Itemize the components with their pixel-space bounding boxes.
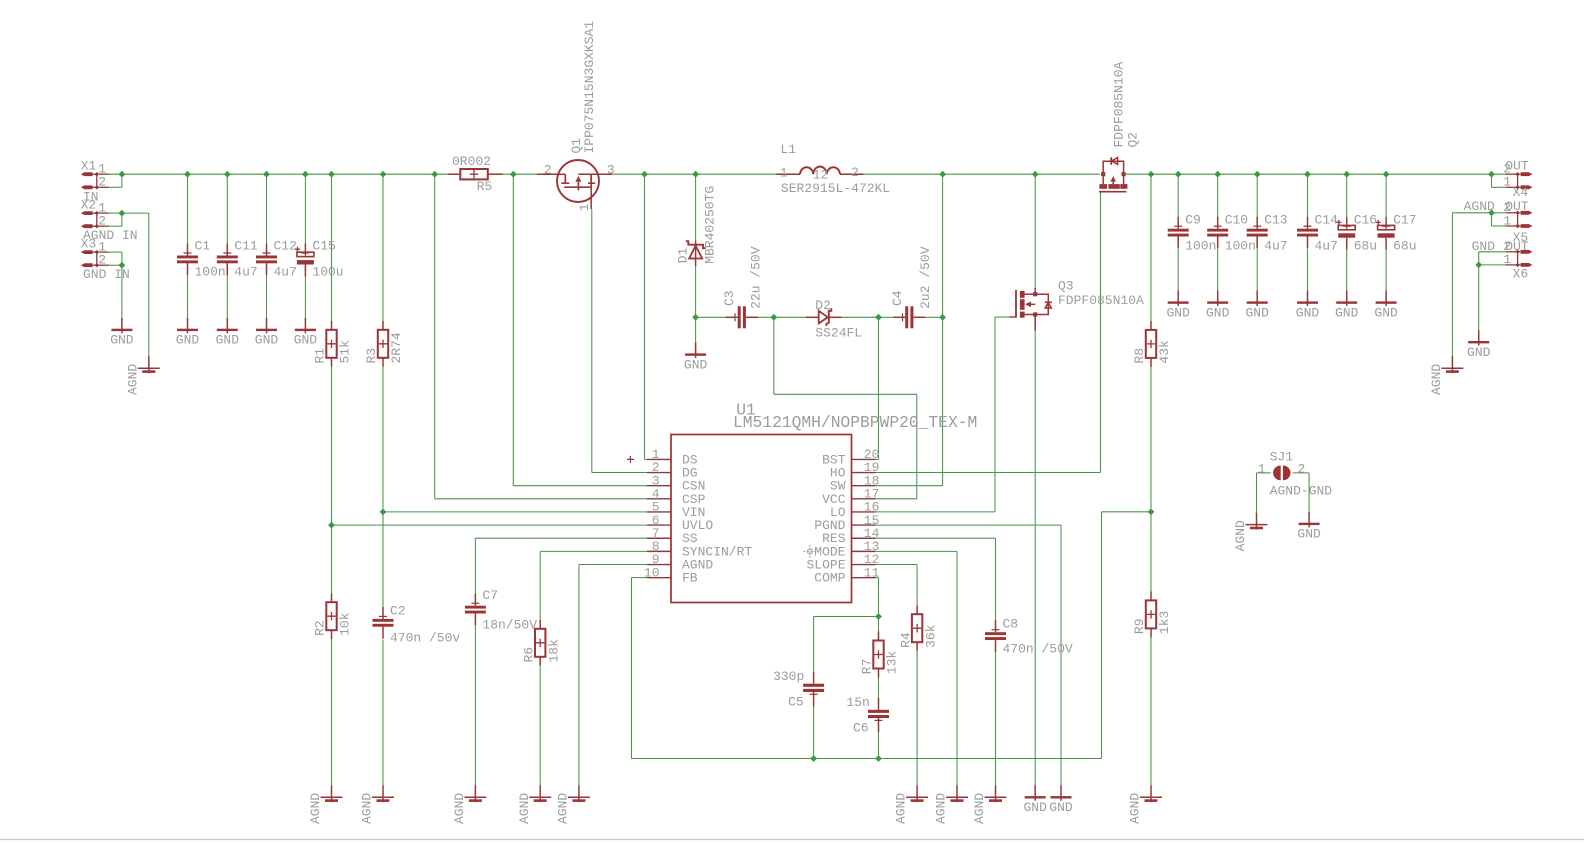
svg-text:2: 2: [98, 175, 106, 190]
wire Q3 gate stub: [995, 316, 1009, 318]
svg-text:R9: R9: [1132, 618, 1147, 634]
junction COMP node: [875, 613, 882, 620]
svg-text:SS24FL: SS24FL: [815, 326, 862, 341]
svg-text:4u7: 4u7: [234, 265, 257, 280]
svg-text:C13: C13: [1264, 213, 1287, 228]
svg-text:GND: GND: [1297, 527, 1321, 542]
U1 pin 19 HO: [830, 460, 880, 480]
ground GND under X3: [110, 318, 134, 348]
wire RES to C8: [995, 538, 997, 620]
wire C5 bottom: [813, 706, 815, 758]
inductor L1: [776, 165, 864, 183]
wire rail to C15: [304, 174, 306, 243]
svg-text:SER2915L-472KL: SER2915L-472KL: [781, 181, 890, 196]
capacitor C5: [773, 669, 824, 709]
capacitor C11: [217, 239, 258, 280]
wire rail to C16: [1346, 174, 1348, 217]
svg-text:10k: 10k: [338, 612, 353, 636]
svg-text:MBR40250TG: MBR40250TG: [703, 186, 718, 264]
wire UVLO to R2: [331, 525, 333, 593]
wire VIN: [383, 511, 647, 513]
connector X4: [1503, 162, 1532, 201]
junction rail C15: [302, 171, 309, 178]
wire SJ1 to GND: [1308, 473, 1310, 512]
wire CSP drop: [434, 174, 436, 499]
junction rail DS: [641, 171, 648, 178]
wire SLOPE to R4: [916, 565, 918, 606]
U1 pin 12 SLOPE: [806, 552, 879, 572]
svg-text:22u /50V: 22u /50V: [748, 246, 763, 309]
svg-text:Q3: Q3: [1058, 279, 1074, 294]
wire R2 to AGND: [331, 639, 333, 785]
wire X5 pin1: [1492, 225, 1506, 227]
svg-text:GND: GND: [110, 333, 134, 348]
wire FB pin: [632, 577, 648, 579]
svg-text:100n: 100n: [1225, 239, 1256, 254]
svg-text:1: 1: [1503, 252, 1511, 267]
svg-text:GND: GND: [255, 333, 279, 348]
svg-text:AGND: AGND: [517, 793, 532, 824]
svg-text:OUT: OUT: [1505, 199, 1529, 214]
svg-text:R3: R3: [364, 348, 379, 364]
svg-text:2: 2: [1298, 461, 1306, 476]
junction rail R3: [380, 171, 387, 178]
svg-text:AGND: AGND: [934, 793, 949, 824]
wire BST riser: [878, 317, 880, 459]
junction rail C17: [1383, 171, 1390, 178]
wire FB drop: [631, 578, 633, 759]
wire rail to C10: [1217, 174, 1219, 217]
svg-text:C4: C4: [890, 290, 905, 306]
svg-text:100u: 100u: [312, 265, 343, 280]
svg-text:R4: R4: [898, 632, 913, 648]
junction D2 C4 BST node: [875, 314, 882, 321]
svg-text:1: 1: [1503, 213, 1511, 228]
wire RES: [876, 537, 996, 539]
ground AGND under X2: [125, 356, 159, 395]
svg-text:C8: C8: [1003, 616, 1019, 631]
capacitor C7: [465, 588, 537, 632]
wire MODE: [876, 550, 958, 552]
capacitor C4: [893, 306, 925, 328]
capacitor C13: [1247, 213, 1288, 254]
svg-text:AGND: AGND: [1464, 199, 1495, 214]
junction rail R1: [328, 171, 335, 178]
junction C3 D2 VCC node: [770, 314, 777, 321]
wire C10 to GND: [1217, 249, 1219, 290]
wire D2 cathode to BST node: [842, 316, 879, 318]
U1 MODE origin crosshair: [803, 545, 816, 558]
U1 origin cross: [627, 456, 634, 463]
svg-text:1k3: 1k3: [1157, 611, 1172, 634]
U1 pin 10 FB: [644, 565, 698, 585]
svg-text:AGND: AGND: [360, 793, 375, 824]
wire X2 pin1: [109, 212, 122, 214]
wire FB to divider: [1102, 511, 1152, 513]
ground GND under C12: [255, 318, 279, 348]
svg-text:X6: X6: [1513, 267, 1529, 282]
wire C5 top: [813, 617, 815, 672]
junction rail C14: [1304, 171, 1311, 178]
svg-text:AGND: AGND: [556, 793, 571, 824]
wire HO to Q2 gate: [1100, 192, 1102, 472]
svg-text:36k: 36k: [923, 624, 938, 648]
capacitor C8: [985, 616, 1073, 656]
wire C11 to GND: [226, 275, 228, 318]
svg-text:3: 3: [607, 162, 615, 177]
wire VCC riser: [916, 394, 918, 499]
capacitor C3: [726, 306, 758, 328]
svg-text:C16: C16: [1354, 213, 1377, 228]
wire AGND pin drop: [578, 565, 580, 786]
wire C4 to SW riser: [926, 316, 943, 318]
wire VCC to D2 anode node: [773, 317, 775, 394]
wire C9 to GND: [1177, 249, 1179, 290]
ground GND under C16: [1335, 291, 1359, 321]
ground AGND under SJ1: [1233, 513, 1267, 552]
svg-text:GND: GND: [1374, 305, 1398, 320]
wire X3 pin1: [109, 251, 122, 253]
svg-text:GND IN: GND IN: [83, 267, 130, 282]
capacitor C15: [295, 239, 344, 280]
svg-text:GND: GND: [1296, 305, 1320, 320]
svg-text:C5: C5: [788, 694, 804, 709]
wire X6 jog: [1478, 252, 1480, 265]
svg-text:X1: X1: [81, 159, 97, 174]
svg-text:43k: 43k: [1157, 340, 1172, 364]
ground GND under C13: [1245, 291, 1269, 321]
wire AGND_IN: [122, 212, 149, 214]
svg-text:C14: C14: [1315, 213, 1339, 228]
svg-text:100n: 100n: [1185, 239, 1216, 254]
svg-text:1: 1: [1258, 461, 1266, 476]
wire CSN drop: [512, 174, 514, 486]
svg-text:AGND-GND: AGND-GND: [1270, 484, 1333, 499]
junction rail R8: [1148, 171, 1155, 178]
ground GND under Q3: [1023, 785, 1047, 815]
U1 pin 18 SW: [830, 473, 880, 493]
svg-text:GND: GND: [176, 333, 200, 348]
wire C13 to GND: [1256, 249, 1258, 290]
svg-text:2: 2: [851, 165, 859, 180]
U1 pin 4 CSP: [647, 487, 706, 507]
resistor R4: [898, 605, 938, 651]
transistor Q3: [1009, 288, 1052, 331]
ground AGND under R4: [894, 785, 928, 824]
svg-text:1: 1: [577, 203, 592, 211]
wire PGND to GND: [1060, 525, 1062, 785]
junction X5 AGND node: [1488, 209, 1495, 216]
U1 pin 9 AGND: [647, 552, 713, 572]
svg-text:AGND: AGND: [308, 793, 323, 824]
wire LO: [876, 511, 996, 513]
wire R1 to UVLO: [331, 367, 333, 525]
frame line: [0, 839, 1584, 841]
svg-text:GND: GND: [1023, 800, 1047, 815]
svg-text:GND: GND: [684, 357, 708, 372]
svg-text:X2: X2: [81, 197, 97, 212]
svg-text:2R74: 2R74: [389, 332, 404, 363]
ground AGND under C7: [452, 785, 486, 824]
capacitor C9: [1168, 213, 1217, 254]
svg-text:2: 2: [98, 253, 106, 268]
ground AGND under MODE: [934, 785, 968, 824]
wire VIN to C2: [382, 512, 384, 607]
wire X2 riser: [121, 213, 123, 226]
ground AGND under C8: [972, 785, 1006, 824]
U1 pin 14 RES: [822, 526, 880, 546]
resistor R2: [313, 593, 353, 639]
wire GND_IN drop: [121, 265, 123, 318]
junction X1 on VIN rail: [119, 171, 126, 178]
ground AGND under R2: [308, 785, 342, 824]
transistor Q2: [1099, 157, 1127, 192]
svg-text:1: 1: [780, 166, 788, 181]
svg-text:R8: R8: [1132, 348, 1147, 364]
svg-text:R6: R6: [521, 647, 536, 663]
svg-text:GND: GND: [1335, 305, 1359, 320]
svg-text:R2: R2: [313, 620, 328, 636]
wire C7 to AGND: [474, 626, 476, 785]
junction R8 R9 FB divider: [1148, 508, 1155, 515]
wire D1 to VCC node: [695, 266, 697, 317]
wire Q1 source to DG: [591, 209, 593, 473]
resistor R3: [364, 321, 404, 367]
wire COMP to C5: [814, 616, 879, 618]
capacitor C10: [1207, 213, 1256, 254]
wire to C4: [879, 316, 894, 318]
wire CSN: [513, 485, 647, 487]
svg-text:C2: C2: [390, 604, 406, 619]
svg-text:C9: C9: [1185, 213, 1201, 228]
junction rail D1: [692, 171, 699, 178]
wire SW rail L1 to Q2: [864, 173, 1100, 175]
wire X5 jog: [1491, 213, 1493, 226]
U1 pin 20 BST: [822, 447, 879, 467]
svg-text:IPP075N15N3GXKSA1: IPP075N15N3GXKSA1: [582, 21, 597, 154]
svg-text:C11: C11: [234, 239, 258, 254]
svg-text:C10: C10: [1225, 213, 1248, 228]
wire DS drop: [644, 174, 646, 459]
wire AGND drop right: [1451, 213, 1453, 356]
wire X4 pin1: [1492, 186, 1506, 188]
junction rail C9: [1175, 171, 1182, 178]
wire C8 to AGND: [995, 652, 997, 785]
wire SYNCIN_RT: [540, 550, 647, 552]
U1 pin 8 SYNCIN/RT: [647, 539, 752, 559]
wire COMP pin: [876, 577, 879, 579]
ground GND under X6: [1467, 330, 1491, 360]
svg-text:COMP: COMP: [814, 571, 845, 586]
junction rail C16: [1343, 171, 1350, 178]
wire PGND: [876, 524, 1062, 526]
junction C6 FB rail: [875, 755, 882, 762]
svg-text:4u7: 4u7: [274, 265, 297, 280]
U1 pin 11 COMP: [814, 565, 879, 585]
U1 pin 17 VCC: [822, 487, 879, 507]
U1 pin 6 UVLO: [647, 513, 713, 533]
wire rail to D1: [695, 174, 697, 240]
U1 pin 2 DG: [647, 460, 698, 480]
wire C12 to GND: [266, 275, 268, 318]
capacitor C14: [1297, 213, 1338, 254]
wire BST pin: [876, 458, 879, 460]
resistor R1: [313, 321, 353, 367]
wire VCC horizontal: [774, 393, 917, 395]
svg-text:L1: L1: [780, 142, 796, 157]
junction rail Q3 drain: [1032, 171, 1039, 178]
wire OUT rail Q2 to X4: [1126, 173, 1508, 175]
svg-text:AGND: AGND: [452, 793, 467, 824]
svg-text:R1: R1: [313, 348, 328, 364]
ground GND under D1: [684, 343, 708, 373]
svg-text:4u7: 4u7: [1315, 239, 1338, 254]
svg-text:D1: D1: [676, 247, 691, 263]
wire DS: [645, 458, 648, 460]
wire AGND_IN drop: [148, 213, 150, 356]
wire COMP drop: [878, 578, 880, 617]
junction rail C12: [263, 171, 270, 178]
ground AGND under C2: [360, 785, 394, 824]
wire C16 to GND: [1346, 249, 1348, 290]
wire rail to R8: [1150, 174, 1152, 321]
svg-text:C3: C3: [722, 290, 737, 306]
ground GND under C17: [1374, 291, 1398, 321]
wire rail to C12: [266, 174, 268, 243]
svg-text:100n: 100n: [195, 265, 226, 280]
wire MODE to AGND: [956, 551, 958, 785]
wire rail to C13: [1256, 174, 1258, 217]
svg-text:C1: C1: [195, 239, 211, 254]
junction rail CSN: [510, 171, 517, 178]
wire R7 to C6: [878, 678, 880, 698]
svg-text:68u: 68u: [1354, 239, 1377, 254]
capacitor C1: [177, 239, 226, 280]
wire UVLO: [332, 524, 648, 526]
connector X3: [81, 236, 109, 267]
svg-text:GND: GND: [1166, 305, 1190, 320]
svg-text:0R002: 0R002: [452, 154, 491, 169]
ground GND under C10: [1206, 291, 1230, 321]
ground GND under C14: [1296, 291, 1320, 321]
svg-text:C12: C12: [274, 239, 297, 254]
junction C3 GND node: [692, 314, 699, 321]
svg-text:51k: 51k: [338, 340, 353, 364]
svg-text:FDPF085N10A: FDPF085N10A: [1058, 293, 1144, 308]
junction X6 GND node: [1475, 262, 1482, 269]
wire rail to Q3 drain: [1034, 174, 1036, 288]
svg-text:C7: C7: [482, 588, 498, 603]
wire LO to Q3 gate riser: [994, 317, 996, 512]
U1 pin 1 DS: [647, 447, 698, 467]
wire FB riser: [1101, 512, 1103, 759]
resistor R8: [1132, 321, 1172, 367]
wire DG: [592, 472, 647, 474]
svg-text:68u: 68u: [1393, 239, 1416, 254]
svg-text:GND: GND: [1472, 239, 1496, 254]
ground GND under C11: [216, 318, 240, 348]
wire X2 pin2: [109, 225, 122, 227]
junction rail X4: [1488, 171, 1495, 178]
wire R3 to VIN pin: [382, 367, 384, 512]
wire COMP to R7: [878, 617, 880, 632]
wire rail to C14: [1307, 174, 1309, 217]
svg-text:AGND: AGND: [125, 364, 140, 395]
wire SW riser upper: [942, 174, 944, 317]
capacitor C16: [1336, 213, 1377, 254]
wire to GND symbol: [695, 317, 697, 342]
svg-text:FB: FB: [682, 571, 698, 586]
svg-text:R7: R7: [860, 659, 875, 675]
resistor R7: [860, 632, 900, 678]
ground GND under C9: [1166, 291, 1190, 321]
capacitor C12: [256, 239, 297, 280]
wire X4 jog: [1491, 174, 1493, 187]
svg-text:R5: R5: [477, 179, 493, 194]
wire X1 pin2: [109, 186, 122, 188]
connector X6: [1503, 239, 1532, 281]
U1 pin 5 VIN: [647, 500, 705, 520]
svg-text:470n /50v: 470n /50v: [390, 631, 460, 646]
wire Q3 source to GND: [1034, 331, 1036, 785]
wire C1 to GND: [187, 275, 189, 318]
ground GND under PGND: [1049, 785, 1073, 815]
svg-text:LM5121QMH/NOPBPWP20_TEX-M: LM5121QMH/NOPBPWP20_TEX-M: [733, 413, 977, 432]
wire rail to R3: [382, 174, 384, 321]
ground AGND under R6: [517, 785, 551, 824]
wire X5 pin2: [1492, 212, 1506, 214]
wire divider to R9: [1150, 512, 1152, 592]
svg-text:10: 10: [644, 565, 660, 580]
svg-text:AGND: AGND: [894, 793, 909, 824]
junction X2 AGND_IN: [119, 210, 126, 217]
svg-text:4u7: 4u7: [1264, 239, 1287, 254]
svg-text:AGND: AGND: [972, 793, 987, 824]
wire rail to C11: [226, 174, 228, 243]
wire SW pin: [876, 485, 943, 487]
svg-text:C6: C6: [853, 720, 869, 735]
svg-text:OUT: OUT: [1505, 158, 1529, 173]
wire R8 to divider node: [1150, 367, 1152, 512]
wire VCC pin: [876, 498, 917, 500]
svg-text:GND: GND: [294, 333, 318, 348]
capacitor C17: [1376, 213, 1417, 254]
jumper SJ1: [1258, 450, 1333, 499]
svg-text:470n /50V: 470n /50V: [1003, 641, 1073, 656]
resistor R5: [448, 154, 503, 194]
wire SJ1 to AGND: [1256, 473, 1258, 513]
junction UVLO node: [328, 522, 335, 529]
svg-text:GND: GND: [1467, 345, 1491, 360]
wire SJ1 pin1: [1257, 472, 1271, 474]
svg-text:AGND: AGND: [1128, 793, 1143, 824]
svg-text:D2: D2: [815, 298, 831, 313]
wire HO: [876, 472, 1101, 474]
junction rail C11: [224, 171, 231, 178]
ground GND under C15: [294, 318, 318, 348]
wire C2 to AGND: [382, 640, 384, 786]
wire SS to C7: [474, 538, 476, 594]
svg-text:2u2 /50V: 2u2 /50V: [918, 246, 933, 309]
wire to R6: [539, 551, 541, 619]
ground AGND under pin9: [556, 785, 590, 824]
capacitor C2: [373, 604, 461, 646]
svg-text:FDPF085N10A: FDPF085N10A: [1112, 61, 1127, 147]
ground AGND under R9: [1128, 785, 1162, 824]
junction rail SW riser: [939, 171, 946, 178]
wire C14 to GND: [1307, 249, 1309, 290]
U1 pin 15 PGND: [814, 513, 879, 533]
